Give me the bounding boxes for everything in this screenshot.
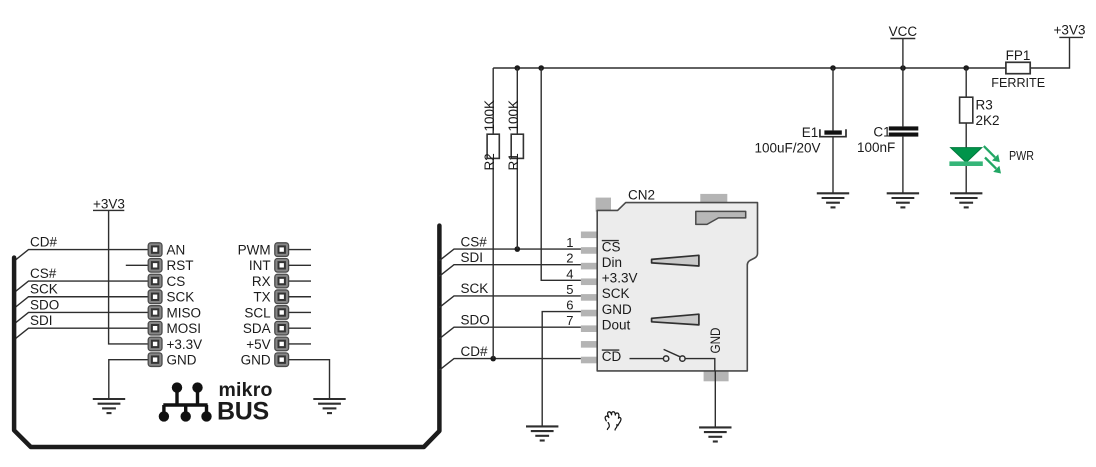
- svg-text:CD: CD: [602, 349, 622, 364]
- svg-text:+3.3V: +3.3V: [602, 271, 638, 286]
- resistor R2 100K: [482, 68, 499, 359]
- node R1/CS# junction: [515, 246, 521, 252]
- resistor R3 2K2: [960, 68, 1000, 148]
- svg-text:CD#: CD#: [461, 344, 488, 359]
- svg-text:1: 1: [566, 235, 573, 250]
- power flag VCC: [889, 24, 918, 68]
- svg-text:R2: R2: [482, 153, 497, 170]
- svg-text:+3V3: +3V3: [1054, 23, 1086, 38]
- svg-text:RX: RX: [252, 274, 271, 289]
- pin numbers 1,2,4,5,6,7: [566, 235, 573, 328]
- svg-text:SDI: SDI: [461, 250, 484, 265]
- wire thick mikroBUS bus outline: [14, 226, 439, 447]
- svg-text:2K2: 2K2: [976, 113, 1000, 128]
- mikroBUS logo: [159, 379, 273, 425]
- svg-text:4: 4: [566, 266, 573, 281]
- svg-text:MOSI: MOSI: [167, 321, 202, 336]
- connector CN2 microSD card socket: [581, 194, 758, 381]
- node R2/CD# junction: [490, 356, 496, 362]
- svg-text:SDO: SDO: [461, 312, 490, 327]
- svg-text:RST: RST: [167, 258, 194, 273]
- wire +3V3 flag to +3.3V pin: [109, 210, 149, 344]
- card outline inside CN2: [696, 211, 746, 224]
- switch card-detect inside CN2: [630, 349, 715, 371]
- svg-text:CD#: CD#: [30, 234, 57, 249]
- ground C1: [887, 193, 919, 207]
- wire SCK bus to card socket: [439, 281, 581, 307]
- ferrite bead FP1: [991, 48, 1045, 90]
- svg-text:PWR: PWR: [1009, 148, 1034, 163]
- contact wedge lower: [652, 314, 699, 325]
- svg-text:SDI: SDI: [30, 313, 53, 328]
- capacitor C1 100nF: [857, 68, 918, 193]
- svg-text:GND: GND: [708, 327, 723, 353]
- power flag +3V3 right: [1054, 23, 1086, 38]
- ground E1: [817, 193, 849, 207]
- wire RST stub: [126, 264, 148, 266]
- svg-text:SDO: SDO: [30, 297, 59, 312]
- svg-text:FERRITE: FERRITE: [991, 76, 1045, 90]
- node rail junction x=903: [900, 65, 906, 71]
- wire card pin 6 GND to ground: [542, 312, 581, 427]
- wire CS# bus to header: [14, 266, 148, 293]
- svg-text:R3: R3: [976, 98, 993, 113]
- wire stubs right header: [289, 250, 311, 344]
- svg-text:+5V: +5V: [246, 337, 270, 352]
- svg-text:SCK: SCK: [167, 290, 195, 305]
- ground CN2: [699, 427, 731, 441]
- power flag +3V3 left: [93, 197, 125, 212]
- svg-text:100K: 100K: [482, 100, 497, 132]
- svg-text:MISO: MISO: [167, 305, 202, 320]
- svg-text:7: 7: [566, 313, 573, 328]
- svg-text:GND: GND: [241, 353, 271, 368]
- wire +3.3V rail: [493, 67, 1006, 69]
- ground LED: [950, 193, 982, 207]
- svg-text:AN: AN: [167, 243, 186, 258]
- svg-text:Dout: Dout: [602, 318, 631, 333]
- wire SDI bus to card socket: [439, 250, 581, 276]
- svg-text:CS#: CS#: [30, 266, 57, 281]
- svg-text:PWM: PWM: [238, 243, 271, 258]
- wire CS# bus to card socket: [439, 234, 581, 260]
- contact wedge upper: [652, 255, 699, 266]
- wire ferrite to +3V3: [1030, 37, 1069, 68]
- svg-text:CN2: CN2: [628, 187, 655, 202]
- wire +3.3V rail to card pin 4: [541, 68, 581, 280]
- wire SDO bus to card socket: [439, 312, 581, 338]
- svg-text:100uF/20V: 100uF/20V: [755, 141, 821, 156]
- svg-text:SCL: SCL: [244, 305, 271, 320]
- wire SCK bus to header: [14, 282, 148, 309]
- svg-text:SDA: SDA: [243, 321, 271, 336]
- resistor R1 100K: [506, 68, 523, 249]
- svg-text:CS: CS: [167, 274, 186, 289]
- svg-text:CS#: CS#: [461, 234, 488, 249]
- LED D1 PWR green: [949, 146, 1034, 193]
- svg-text:+3V3: +3V3: [93, 197, 125, 212]
- wire CD# bus to header: [14, 234, 148, 261]
- svg-text:BUS: BUS: [217, 398, 269, 426]
- node rail junction x=966.2: [963, 65, 969, 71]
- capacitor E1 100uF/20V electrolytic: [755, 68, 847, 193]
- wire GND left header to ground: [109, 360, 148, 399]
- ground card pin 6: [526, 426, 558, 440]
- connector left mikroBUS header (AN..GND): [148, 243, 202, 368]
- svg-text:E1: E1: [802, 125, 819, 140]
- svg-text:2: 2: [566, 251, 573, 266]
- svg-text:6: 6: [566, 298, 573, 313]
- wire GND right header to ground: [289, 360, 330, 399]
- svg-text:SCK: SCK: [30, 282, 58, 297]
- svg-text:C1: C1: [873, 125, 890, 140]
- svg-text:SCK: SCK: [602, 286, 630, 301]
- svg-text:Din: Din: [602, 255, 622, 270]
- node rail junction x=833: [830, 65, 836, 71]
- ground left header: [93, 399, 125, 413]
- node rail junction x=541.2: [538, 65, 544, 71]
- svg-text:5: 5: [566, 282, 573, 297]
- svg-text:SCK: SCK: [461, 281, 489, 296]
- svg-text:100K: 100K: [506, 100, 521, 132]
- svg-text:CS: CS: [602, 239, 621, 254]
- svg-text:GND: GND: [602, 302, 632, 317]
- svg-text:100nF: 100nF: [857, 140, 895, 155]
- node rail junction x=517.3: [515, 65, 521, 71]
- mouse hand cursor: [605, 412, 621, 430]
- wire SDO bus to header: [14, 297, 148, 324]
- svg-text:TX: TX: [253, 290, 270, 305]
- svg-text:FP1: FP1: [1006, 48, 1031, 63]
- wire SDI bus to header: [14, 313, 148, 340]
- svg-text:+3.3V: +3.3V: [167, 337, 203, 352]
- pin labels inside CN2: [602, 239, 638, 364]
- wire CN2 GND pad to ground: [714, 371, 716, 428]
- svg-text:INT: INT: [249, 258, 271, 273]
- svg-text:R1: R1: [506, 153, 521, 170]
- ground right header: [313, 399, 345, 413]
- svg-text:GND: GND: [167, 353, 197, 368]
- connector right mikroBUS header (PWM..GND): [238, 243, 289, 368]
- svg-text:VCC: VCC: [889, 24, 918, 39]
- wire CD# bus to card socket: [439, 344, 581, 370]
